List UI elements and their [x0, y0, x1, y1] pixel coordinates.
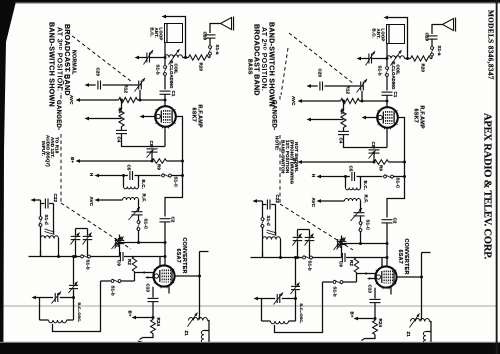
ground return converter R [365, 335, 376, 339]
capacitor C19 [205, 34, 216, 36]
svg-text:AVC: AVC [291, 96, 296, 106]
resistor R12' [341, 98, 360, 103]
svg-text:LOADING: LOADING [169, 69, 174, 89]
svg-text:C4: C4 [117, 137, 122, 143]
svg-text:R24: R24 [156, 318, 161, 327]
svg-text:CONVERTER: CONVERTER [181, 238, 187, 274]
switch S1-b' osc bus [323, 281, 333, 283]
svg-text:R24: R24 [378, 319, 383, 328]
svg-text:CONVERTER: CONVERTER [403, 239, 409, 275]
svg-text:H: H [89, 173, 94, 176]
svg-text:C8: C8 [371, 142, 376, 148]
oscillator tap to switch R [275, 282, 323, 333]
fold line gray [0, 305, 496, 306]
resistor R20 [209, 57, 211, 59]
capacitor C8' [373, 148, 375, 149]
wire loop to coil L [164, 43, 166, 58]
svg-text:R12: R12 [346, 86, 351, 95]
resistor R20' [431, 58, 433, 60]
trimmer C-ant L [150, 57, 165, 59]
oscillator coil L [41, 236, 59, 239]
switch S1-d [39, 217, 42, 220]
wire loop to coil R [386, 44, 388, 59]
switch S1-d' [261, 218, 264, 221]
oscillator box B.C. OSC R [254, 297, 259, 301]
resistor R1' [343, 101, 345, 110]
svg-text:NORMAL: NORMAL [70, 50, 76, 75]
svg-text:(PHONO) DRAWING: (PHONO) DRAWING [290, 140, 295, 185]
wire coil bus R [405, 58, 411, 60]
feedback trimmer R [295, 258, 297, 286]
svg-text:B+: B+ [128, 311, 133, 317]
tube V1' 6SK7 R.F. AMP [377, 107, 398, 128]
switch S1-c' upper [361, 176, 383, 178]
svg-text:MODELS 8346,8347: MODELS 8346,8347 [486, 10, 494, 80]
svg-text:B+: B+ [350, 312, 355, 318]
svg-text:B.C.: B.C. [372, 29, 377, 38]
svg-text:1ST. POSITION: 1ST. POSITION [285, 140, 290, 173]
oscillator box B.C. OSC L [32, 296, 37, 300]
capacitor C9' [318, 257, 342, 259]
transformer Z1' osc section [411, 319, 430, 322]
ground return converter L [143, 334, 154, 338]
wire coil bus L [183, 57, 189, 59]
resistor R9 [152, 159, 167, 164]
cathode arrow 6SK7 L [140, 115, 145, 119]
transformer Z1 osc section [189, 318, 208, 321]
tube V2 6SA7 CONVERTER [153, 265, 174, 286]
capacitor C5 [124, 175, 128, 177]
page border left [0, 0, 16, 354]
svg-text:C5: C5 [349, 166, 354, 172]
svg-text:R9: R9 [379, 165, 384, 171]
svg-text:R.F.AMP: R.F.AMP [197, 105, 203, 128]
svg-text:AVC: AVC [89, 197, 94, 207]
inductor B.C. LOADING COIL' [387, 56, 405, 59]
resistor R2' [354, 258, 358, 273]
inductor B.C. LOADING COIL [165, 55, 183, 58]
padder trimmers R [298, 229, 310, 231]
capacitor C22 [31, 198, 36, 202]
svg-text:BASS: BASS [247, 59, 253, 75]
transformer B.C. R.F. secondary L [123, 198, 139, 201]
oscillator bus S1-b' [251, 257, 303, 259]
capacitor C22' [253, 199, 258, 203]
svg-text:C19: C19 [203, 32, 208, 41]
svg-text:S1-C: S1-C [174, 177, 179, 188]
svg-text:C4: C4 [339, 138, 344, 144]
svg-text:INPUT.: INPUT. [41, 141, 46, 156]
wire to chassis arrow L [138, 57, 147, 59]
svg-text:R1: R1 [340, 109, 345, 115]
svg-text:S1-b: S1-b [86, 260, 91, 270]
wire screen drop L [164, 127, 166, 147]
trimmer C-ant R [372, 58, 387, 60]
svg-text:R.F.AMP: R.F.AMP [419, 106, 425, 129]
capacitor C1 [160, 90, 171, 92]
trimmer on secondary R [360, 201, 362, 212]
svg-text:C1: C1 [171, 91, 176, 97]
svg-text:GANGED-: GANGED- [55, 100, 61, 130]
tube V2' 6SA7 CONVERTER [375, 266, 396, 287]
svg-text:B.C.-OSC.: B.C.-OSC. [299, 304, 304, 324]
svg-text:S1-d: S1-d [44, 215, 49, 225]
sidebar rule right [496, 0, 498, 354]
grid arrows into 6SA7 R [356, 273, 358, 274]
svg-text:LOADING: LOADING [391, 70, 396, 90]
svg-text:B.C.: B.C. [141, 180, 146, 189]
wire osc grid stub R [381, 258, 383, 268]
wire screen drop R [386, 128, 388, 148]
capacitor C20 [87, 84, 96, 86]
oscillator grid trimmer L [115, 238, 117, 247]
svg-text:NOT SHOWN.: NOT SHOWN. [294, 142, 299, 172]
svg-text:R2: R2 [127, 259, 132, 265]
svg-text:S1-a: S1-a [215, 45, 220, 55]
antenna A [221, 18, 232, 30]
wire C1 to 6SK7 grid R [386, 96, 388, 108]
capacitor C19' [427, 35, 438, 37]
wire converter plate R [397, 276, 422, 278]
capacitor C10' [374, 288, 376, 299]
svg-text:COIL: COIL [173, 64, 178, 75]
svg-text:6SA7: 6SA7 [175, 249, 181, 264]
svg-text:C22: C22 [53, 194, 58, 203]
capacitor C10 [152, 287, 154, 298]
tube V1 6SK7 R.F. AMP [155, 106, 176, 127]
svg-text:APEX RADIO & TELEV. CORP.: APEX RADIO & TELEV. CORP. [481, 113, 492, 259]
wire osc grid stub L [159, 257, 161, 267]
switch S1-a' [431, 47, 434, 50]
capacitor C4 [121, 127, 123, 130]
svg-text:BAND-SWITCH: BAND-SWITCH [281, 140, 286, 174]
cathode arrow 6SK7 R [362, 116, 367, 120]
svg-text:C1: C1 [393, 92, 398, 98]
svg-text:TO R18: TO R18 [54, 137, 59, 154]
resistor R1 [121, 100, 123, 109]
svg-text:6SK7: 6SK7 [413, 109, 419, 124]
wire converter cathode stub R [390, 287, 392, 295]
oscillator bus S1-b [29, 256, 81, 258]
oscillator tap to switch L [53, 281, 101, 332]
svg-text:AT 2ND POSITION.: AT 2ND POSITION. [260, 27, 268, 91]
ganged dashed link right [289, 33, 354, 84]
svg-text:AVC: AVC [311, 198, 316, 208]
svg-text:B.C.: B.C. [150, 28, 155, 37]
svg-text:B.C.: B.C. [363, 181, 368, 190]
svg-text:ANT.: ANT. [154, 28, 159, 38]
third padder L [119, 235, 121, 240]
resistor R2 [132, 257, 136, 272]
resistor R9' [374, 160, 389, 165]
wire converter cathode stub L [168, 286, 170, 294]
svg-text:C9: C9 [117, 260, 122, 266]
svg-text:AUDIO (6SQ7): AUDIO (6SQ7) [46, 135, 51, 167]
svg-text:LOOP: LOOP [159, 28, 164, 41]
wire chassis-feed top L [164, 17, 186, 58]
wire plate 6SK7 R [387, 118, 405, 218]
svg-text:C19: C19 [425, 33, 430, 42]
svg-text:Z1: Z1 [406, 332, 411, 338]
svg-text:COIL: COIL [395, 65, 400, 76]
capacitor C4' [343, 128, 345, 131]
oscillator coil R [263, 237, 281, 240]
wire C2 to converter grid L [164, 243, 166, 266]
oscillator grid trimmer R [337, 239, 339, 248]
switch S1-b (rf) [164, 58, 166, 66]
wire chassis-feed top R [386, 18, 408, 59]
svg-text:Z1: Z1 [184, 331, 189, 337]
svg-text:6SA7: 6SA7 [397, 250, 403, 265]
svg-text:C2: C2 [393, 218, 398, 224]
switch S1-c upper [139, 175, 161, 177]
wire antenna lead R [432, 25, 443, 35]
svg-text:C2: C2 [171, 217, 176, 223]
svg-text:B.C.-OSC.: B.C.-OSC. [77, 303, 82, 323]
capacitor C20' [309, 85, 318, 87]
svg-text:C22: C22 [275, 195, 280, 204]
svg-text:S1-d: S1-d [266, 216, 271, 226]
resistor R24' [373, 321, 378, 335]
svg-text:C20: C20 [318, 69, 323, 78]
ganged dashed link left [67, 32, 132, 82]
svg-text:S1-b: S1-b [333, 287, 338, 297]
svg-text:AT 3RD POSITION.: AT 3RD POSITION. [55, 27, 63, 91]
svg-text:ANT.: ANT. [376, 29, 381, 39]
capacitor C5' [346, 176, 350, 178]
switch S1-a [209, 46, 212, 49]
svg-text:C10: C10 [368, 285, 373, 294]
svg-text:C20: C20 [96, 68, 101, 77]
trimmer on secondary L [138, 200, 140, 211]
grid arrows into 6SA7 L [134, 272, 136, 273]
wire to chassis arrow R [360, 58, 369, 60]
svg-text:C10: C10 [146, 284, 151, 293]
svg-text:R2: R2 [349, 260, 354, 266]
svg-text:S1-C: S1-C [144, 219, 149, 230]
svg-text:H: H [311, 174, 316, 177]
transformer B.C. R.F. primary R [345, 177, 347, 188]
switch S1-b' (rf) [386, 59, 388, 67]
svg-text:R9: R9 [157, 164, 162, 170]
grid return arrow R [307, 118, 312, 122]
trimmer above R12 L [138, 81, 140, 90]
padder trimmers L [76, 228, 88, 230]
antenna loop L1 B.C. ANT. LOOP [165, 24, 183, 43]
svg-text:LOOP: LOOP [381, 29, 386, 42]
svg-text:R20: R20 [199, 63, 204, 72]
svg-text:AVC: AVC [69, 95, 74, 105]
page border bottom [0, 343, 500, 354]
svg-text:R1: R1 [118, 108, 123, 114]
svg-text:AND 1ST.: AND 1ST. [50, 137, 55, 158]
wire C2 to converter grid R [386, 244, 388, 267]
svg-text:S1-b: S1-b [308, 261, 313, 271]
svg-text:R12: R12 [124, 85, 129, 94]
feedback trimmer L [73, 257, 75, 285]
switch S1-c lower [138, 215, 140, 220]
antenna A' [443, 19, 454, 31]
grid return arrow L [85, 117, 90, 121]
svg-text:6SK7: 6SK7 [191, 108, 197, 123]
svg-text:S1-b: S1-b [377, 66, 382, 76]
capacitor C8 [151, 147, 153, 148]
svg-text:NOTE:: NOTE: [275, 136, 280, 151]
capacitor C9 [96, 256, 120, 258]
third padder R [341, 236, 343, 241]
page border top [0, 0, 500, 3]
svg-text:GANGED-: GANGED- [271, 100, 277, 130]
wire antenna lead L [210, 24, 221, 34]
svg-text:C5: C5 [127, 165, 132, 171]
wire C1 to 6SK7 grid L [164, 95, 166, 107]
svg-text:R.F.: R.F. [364, 195, 369, 203]
resistor R24 [151, 320, 156, 334]
svg-text:S1-a: S1-a [437, 46, 442, 56]
resistor R12 [119, 97, 138, 102]
svg-text:C9: C9 [339, 261, 344, 267]
transformer B.C. R.F. primary L [123, 176, 125, 187]
svg-text:C8: C8 [149, 141, 154, 147]
svg-text:S1-b: S1-b [111, 286, 116, 296]
svg-text:R.F.: R.F. [142, 194, 147, 202]
svg-text:B+: B+ [70, 157, 75, 163]
wire plate 6SK7 L [165, 117, 183, 217]
svg-text:S1-b: S1-b [155, 65, 160, 75]
transformer B.C. R.F. secondary R [345, 199, 361, 201]
switch S1-b osc bus [101, 280, 111, 282]
svg-text:S1-C: S1-C [396, 178, 401, 189]
capacitor C1' [382, 91, 393, 93]
svg-text:BAND-SWITCH SHOWN: BAND-SWITCH SHOWN [48, 22, 55, 107]
switch S1-c' lower [360, 216, 362, 221]
antenna loop L1' B.C. ANT. LOOP [387, 25, 405, 44]
svg-text:R20: R20 [421, 64, 426, 73]
wire converter plate L [175, 275, 200, 277]
capacitor C2 [160, 218, 171, 220]
svg-text:S1-C: S1-C [366, 220, 371, 231]
svg-text:BAND-SWITCH SHOWN: BAND-SWITCH SHOWN [267, 22, 274, 107]
capacitor C2' [382, 219, 393, 221]
svg-text:BROADCAST BAND: BROADCAST BAND [63, 24, 70, 96]
trimmer above R12 R [360, 82, 362, 91]
